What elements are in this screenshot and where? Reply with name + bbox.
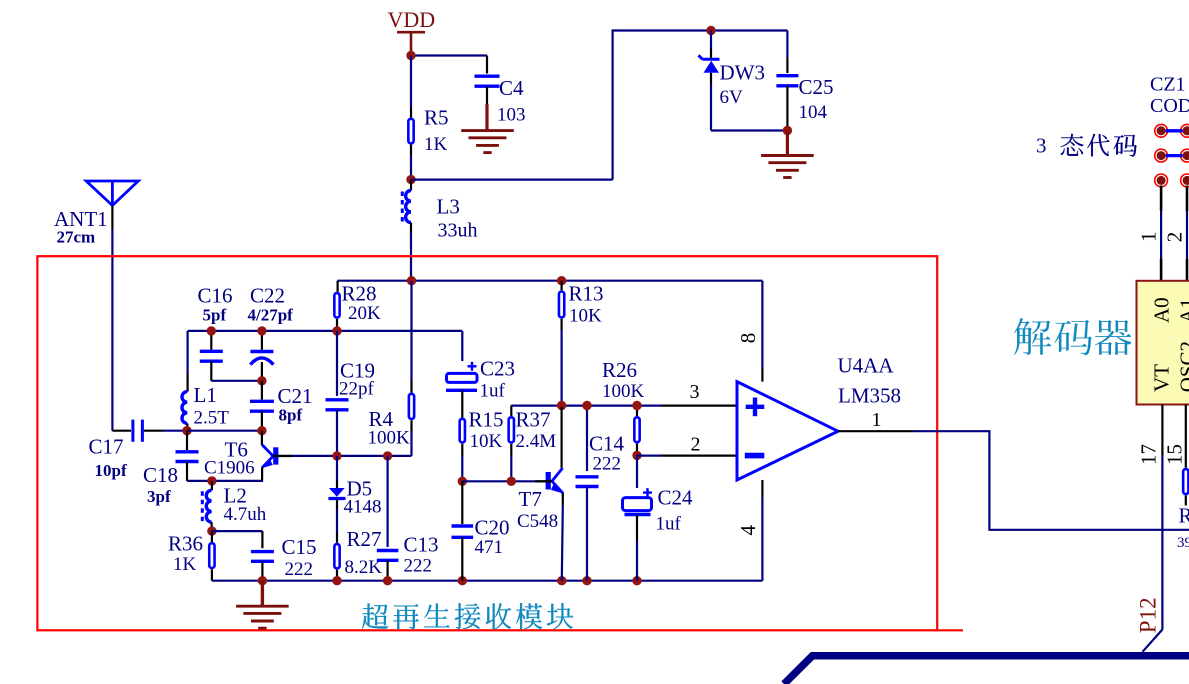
node T6 collector junction	[257, 426, 266, 435]
wire L2 to C15	[212, 530, 263, 532]
node R15/C20 junction	[458, 477, 467, 486]
resistor R37	[510, 406, 512, 417]
svg-text:L1: L1	[194, 383, 217, 407]
chip pin 15 line and resistor R(39)	[1185, 405, 1187, 468]
node L2 bottom junction	[207, 526, 216, 535]
svg-text:103: 103	[497, 105, 526, 126]
resistor R26	[636, 406, 638, 417]
resistor R13	[560, 281, 562, 291]
node C22 top junction	[257, 326, 266, 335]
wire T6 emitter to L2	[212, 480, 263, 482]
svg-text:R37: R37	[516, 407, 551, 431]
svg-text:222: 222	[404, 555, 433, 576]
svg-text:100K: 100K	[602, 381, 645, 402]
svg-text:C14: C14	[589, 431, 625, 455]
node C17/L1/C18 junction	[182, 426, 191, 435]
svg-text:L3: L3	[437, 194, 460, 218]
wire opamp pin3 rail	[511, 405, 661, 407]
svg-text:4: 4	[736, 525, 760, 536]
svg-text:1uf: 1uf	[480, 381, 506, 402]
svg-text:4/27pf: 4/27pf	[248, 305, 294, 324]
capacitor C23 (polarized)	[468, 365, 477, 367]
svg-text:C21: C21	[278, 384, 313, 408]
node C13 bottom junction	[383, 576, 392, 585]
node C16 top junction	[207, 326, 216, 335]
svg-text:C24: C24	[658, 486, 694, 510]
power symbol VDD	[397, 31, 425, 34]
svg-text:P12: P12	[1136, 597, 1161, 633]
inductor L1	[187, 374, 189, 392]
svg-text:C4: C4	[499, 76, 524, 100]
antenna ANT1	[86, 181, 138, 206]
svg-text:2: 2	[691, 433, 701, 455]
node R28 bottom junction	[332, 326, 341, 335]
svg-text:R28: R28	[342, 282, 377, 306]
svg-text:4.7uh: 4.7uh	[224, 504, 267, 525]
ground under C25	[786, 131, 789, 156]
wire P12 to bus	[1143, 630, 1163, 652]
wire pad1 to chip pin1	[1160, 186, 1163, 212]
svg-text:10K: 10K	[470, 431, 503, 452]
zener diode DW3	[710, 31, 712, 50]
svg-text:5pf: 5pf	[203, 305, 227, 324]
svg-text:R15: R15	[469, 407, 504, 431]
svg-text:10K: 10K	[569, 306, 602, 327]
svg-text:C13: C13	[404, 533, 439, 557]
node C15 ground junction	[258, 576, 267, 585]
wire opamp output	[838, 430, 913, 432]
wire tank top rail	[188, 330, 463, 332]
svg-text:A0: A0	[1150, 297, 1174, 323]
capacitor C25	[786, 31, 788, 59]
inductor L2	[211, 481, 213, 490]
wire antenna down to C17	[111, 206, 113, 230]
svg-text:3: 3	[690, 381, 700, 403]
resistor R28	[337, 281, 339, 292]
inductor L3	[410, 180, 412, 191]
svg-text:CODE: CODE	[1150, 95, 1189, 117]
node R26 top junction	[632, 401, 641, 410]
wire tank rail corner to C23	[461, 331, 463, 361]
wire T7 base rail	[462, 480, 535, 482]
ground under C4	[485, 104, 488, 131]
node L2 top junction	[207, 476, 216, 485]
svg-text:C25: C25	[799, 75, 834, 99]
transistor T6	[261, 431, 263, 445]
node R37 bottom junction	[507, 477, 516, 486]
capacitor C18	[186, 431, 188, 450]
wires between pads	[1166, 129, 1183, 132]
wire T6 base to R4	[292, 455, 412, 457]
capacitor C21	[261, 381, 263, 400]
svg-text:15: 15	[1162, 444, 1186, 465]
svg-text:R26: R26	[602, 358, 637, 382]
svg-text:100K: 100K	[368, 428, 411, 449]
decoder chip U (yellow body)	[1137, 281, 1189, 405]
node C20 bottom junction	[458, 576, 467, 585]
svg-text:2: 2	[1162, 232, 1186, 243]
op-amp U4AA	[761, 281, 763, 368]
wire bias rail	[338, 280, 763, 282]
node T7 collector junction	[557, 401, 566, 410]
wire main rail to R4	[410, 281, 412, 380]
svg-text:104: 104	[799, 102, 828, 123]
resistor R15	[460, 419, 465, 443]
svg-text:2.4M: 2.4M	[516, 431, 557, 452]
svg-text:222: 222	[593, 454, 622, 475]
node VDD junction	[406, 51, 415, 60]
node R26 bottom junction	[632, 451, 641, 460]
wire junction to zener branch	[411, 179, 613, 181]
wire C16 bottom to C22 bottom	[211, 380, 262, 382]
node C14 bottom junction	[582, 576, 591, 585]
svg-text:C22: C22	[250, 283, 285, 307]
svg-text:8.2K: 8.2K	[345, 557, 383, 578]
svg-text:R5: R5	[424, 105, 449, 129]
svg-text:C18: C18	[143, 463, 178, 487]
svg-text:CZ1: CZ1	[1150, 74, 1186, 96]
svg-text:17: 17	[1136, 444, 1160, 465]
wire DW3 bottom to C25 bottom	[711, 129, 787, 131]
bus (thick)	[784, 656, 1189, 684]
wire opamp pin2 rail	[637, 455, 661, 457]
svg-text:1uf: 1uf	[656, 514, 682, 535]
resistor R4	[410, 380, 412, 393]
capacitor C20	[461, 481, 463, 524]
svg-text:1K: 1K	[173, 554, 197, 575]
module box (red)	[37, 256, 937, 630]
svg-text:471: 471	[475, 537, 504, 558]
node C13 top junction	[383, 451, 392, 460]
svg-text:22pf: 22pf	[339, 379, 375, 400]
node C25 ground junction	[783, 126, 792, 135]
svg-text:C16: C16	[198, 283, 233, 307]
svg-text:39: 39	[1177, 535, 1189, 551]
wire left drop to L1	[187, 331, 189, 374]
svg-text:27cm: 27cm	[57, 228, 96, 247]
capacitor C14	[586, 406, 588, 472]
svg-text:R13: R13	[569, 281, 604, 305]
trimmer capacitor C22	[261, 331, 263, 350]
svg-text:C23: C23	[480, 356, 515, 380]
svg-text:LM358: LM358	[838, 383, 901, 407]
svg-text:2.5T: 2.5T	[194, 408, 230, 429]
node C14 top junction	[582, 401, 591, 410]
node C24 bottom junction	[632, 576, 641, 585]
svg-text:222: 222	[285, 559, 314, 580]
svg-text:U4AA: U4AA	[838, 354, 895, 378]
svg-text:1: 1	[872, 409, 882, 431]
wire up-and-over to DW3/C25	[613, 31, 788, 180]
node T7 emitter bottom junction	[557, 576, 566, 585]
ground under C15	[261, 581, 264, 607]
capacitor C24 (polarized)	[636, 455, 638, 488]
resistor R27	[334, 544, 339, 568]
svg-text:C20: C20	[475, 515, 510, 539]
svg-text:OSC2: OSC2	[1175, 341, 1189, 392]
svg-text:1: 1	[1137, 232, 1161, 243]
svg-text:A1: A1	[1175, 298, 1189, 324]
wire ground rail	[212, 580, 763, 582]
svg-text:10pf: 10pf	[95, 461, 127, 480]
svg-text:20K: 20K	[348, 303, 381, 324]
resistor R36	[211, 531, 213, 542]
chip pin 17 (VT) line	[1161, 405, 1163, 456]
svg-text:C15: C15	[282, 535, 317, 559]
node C22/C21 junction	[257, 376, 266, 385]
svg-text:4148: 4148	[344, 496, 382, 517]
svg-text:33uh: 33uh	[438, 220, 478, 242]
svg-text:R27: R27	[347, 527, 382, 551]
svg-text:3pf: 3pf	[147, 487, 171, 506]
node D5 top junction	[332, 451, 341, 460]
svg-text:C1906: C1906	[204, 457, 255, 478]
node main rail top junction	[407, 276, 416, 285]
svg-text:C17: C17	[89, 435, 124, 459]
capacitor C16	[210, 331, 212, 350]
label 超再生接收模块	[362, 603, 388, 628]
svg-text:DW3: DW3	[720, 61, 766, 85]
svg-text:VDD: VDD	[388, 7, 436, 32]
resistor R5	[410, 56, 412, 108]
capacitor C15	[261, 531, 263, 548]
node DW3 top junction	[706, 26, 715, 35]
node R13 top junction	[557, 276, 566, 285]
wire VDD rail to C4	[411, 54, 487, 56]
wire pad2 to chip pin2	[1186, 186, 1189, 212]
svg-text:T7: T7	[519, 487, 542, 511]
svg-text:C548: C548	[517, 511, 558, 532]
capacitor C4	[486, 56, 488, 74]
wire C17 to T6 collector	[187, 430, 262, 432]
capacitor C19	[336, 331, 338, 396]
capacitor C17	[112, 430, 131, 432]
svg-text:1K: 1K	[424, 134, 448, 155]
capacitor C13	[387, 456, 389, 547]
svg-text:VT: VT	[1149, 364, 1173, 392]
svg-text:6V: 6V	[720, 87, 744, 108]
svg-text:3: 3	[1036, 134, 1047, 158]
svg-text:8: 8	[736, 333, 760, 344]
svg-text:8pf: 8pf	[279, 406, 303, 425]
svg-text:R: R	[1179, 504, 1189, 528]
node R27 bottom junction	[332, 576, 341, 585]
svg-text:R36: R36	[168, 532, 203, 556]
node R5/L3 junction	[406, 175, 415, 184]
label 解码器	[1014, 318, 1051, 355]
diode D5	[336, 456, 338, 481]
transistor T7	[560, 407, 562, 468]
